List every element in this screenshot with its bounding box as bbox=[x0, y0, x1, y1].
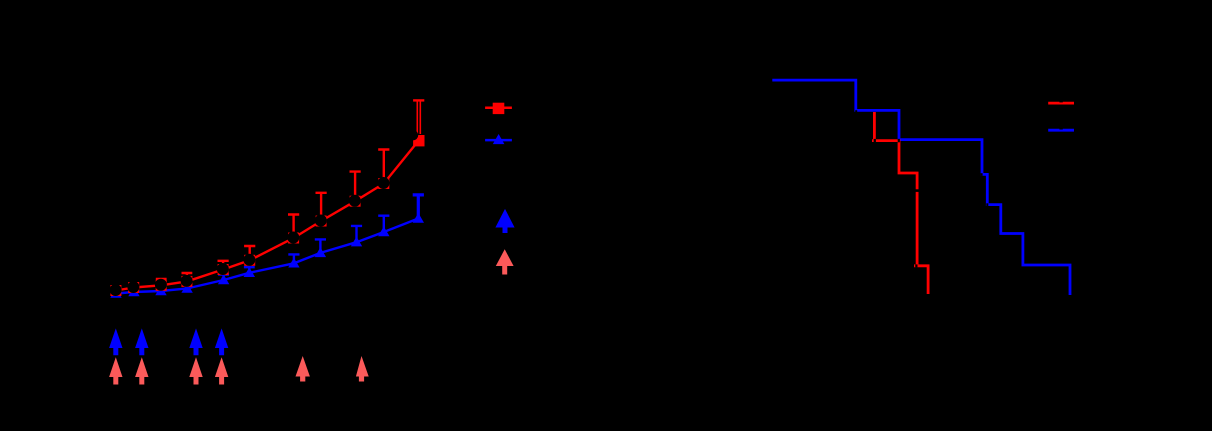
red square markers (open: red square with black disc) bbox=[110, 130, 425, 296]
black censor gap on red vertical bbox=[915, 189, 920, 192]
LEFT PANEL: tumor growth curves bbox=[109, 100, 514, 384]
right legend: red line bbox=[1048, 102, 1074, 105]
blue error bars bbox=[218, 195, 424, 280]
black censor notches at step corners bbox=[874, 139, 876, 142]
left legend: red entry bbox=[485, 103, 512, 114]
left legend: salmon arrow bbox=[496, 249, 514, 274]
blue triangle markers bbox=[110, 213, 424, 298]
red survival curve bbox=[872, 112, 928, 294]
treatment arrows: blue row bbox=[109, 328, 228, 355]
left legend: blue arrow bbox=[495, 209, 514, 233]
RIGHT PANEL: Kaplan-Meier survival curves bbox=[772, 80, 1074, 295]
treatment arrows: salmon row bbox=[109, 356, 369, 385]
red growth line bbox=[116, 141, 419, 291]
left legend: blue entry bbox=[485, 134, 512, 144]
blue survival curve bbox=[772, 80, 1070, 295]
blue growth line bbox=[116, 219, 418, 294]
right legend: blue line bbox=[1048, 129, 1074, 132]
red error bars bbox=[156, 100, 425, 285]
